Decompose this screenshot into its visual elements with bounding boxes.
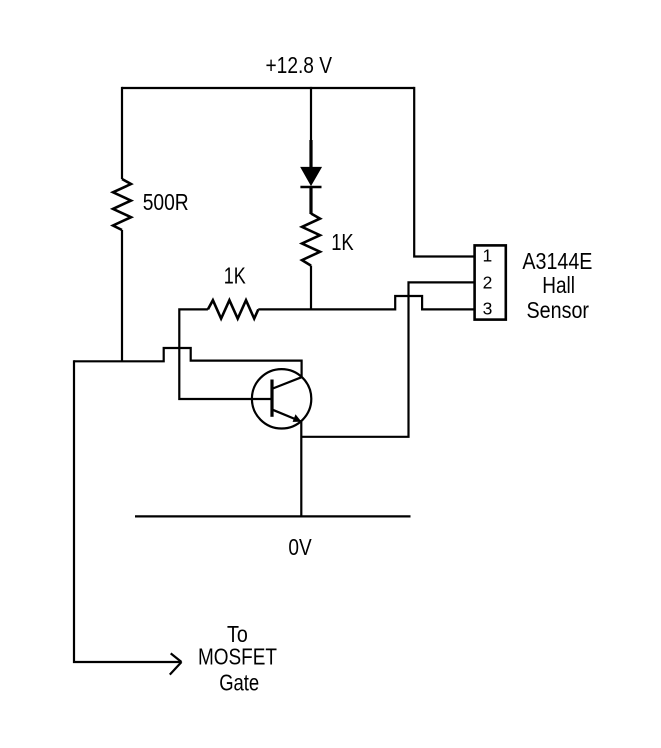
wire pin 3 net with hop over pin2 wire — [258, 296, 474, 309]
svg-text:1: 1 — [483, 246, 493, 266]
wire right branch (rail to pin 1) — [414, 87, 474, 257]
diode D1 cathode bar — [300, 186, 321, 189]
arrowhead to MOSFET gate (open) — [170, 653, 182, 674]
wire top +12.8V rail — [122, 87, 414, 89]
diode D1 anode lead — [309, 140, 312, 168]
svg-text:1K: 1K — [224, 262, 247, 288]
svg-text:500R: 500R — [143, 189, 189, 215]
resistor R1 500R — [113, 179, 131, 230]
transistor Q1 base bar — [270, 380, 273, 417]
svg-text:A3144E: A3144E — [522, 248, 592, 274]
connector J1 box — [475, 245, 506, 319]
wire collector net with hop over base wire — [74, 348, 302, 389]
wire pin 2 net (box to emitter) — [301, 282, 474, 436]
svg-text:Hall: Hall — [542, 272, 575, 298]
svg-text:Sensor: Sensor — [527, 297, 590, 323]
diode D1 triangle — [301, 167, 321, 185]
diode D1 cathode lead — [309, 187, 312, 214]
wire emitter to ground — [300, 422, 302, 517]
transistor Q1 emitter line — [273, 410, 302, 422]
svg-text:3: 3 — [483, 298, 493, 318]
svg-text:Gate: Gate — [219, 670, 259, 696]
svg-text:2: 2 — [483, 272, 493, 292]
resistor R3 1K (horizontal) — [208, 300, 258, 318]
wire middle branch (rail to diode) — [310, 87, 312, 141]
transistor Q1 circle — [252, 369, 311, 428]
wire to MOSFET gate — [74, 360, 181, 662]
wire R3 to base corner and base of Q1 — [179, 309, 270, 399]
svg-text:0V: 0V — [288, 534, 312, 560]
wire 500R bottom lead to collector net — [121, 230, 123, 361]
svg-text:MOSFET: MOSFET — [198, 644, 277, 670]
svg-text:+12.8 V: +12.8 V — [266, 52, 333, 78]
ground rail 0V — [135, 515, 411, 517]
wire R2 bottom lead to pin3 net — [310, 266, 312, 311]
svg-text:1K: 1K — [331, 229, 354, 255]
transistor Q1 emitter arrowhead — [293, 414, 302, 422]
resistor R2 1K (vertical) — [302, 214, 320, 266]
wire left branch top (rail to 500R) — [121, 87, 123, 179]
